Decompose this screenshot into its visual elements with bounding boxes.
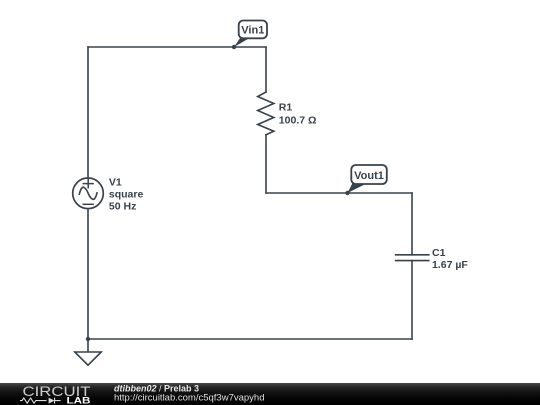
V1 minus sign xyxy=(83,203,93,205)
logo diode bar xyxy=(55,397,61,403)
svg-text:50 Hz: 50 Hz xyxy=(109,201,136,213)
wire left vertical upper (top node to V1) xyxy=(87,47,89,178)
ground stem xyxy=(87,339,89,352)
junction node at Vout1 xyxy=(345,191,349,195)
flag pointer Vin1 xyxy=(234,38,251,48)
junction node at ground xyxy=(86,337,90,341)
capacitor C1 top plate xyxy=(396,254,429,256)
flag box Vout1 xyxy=(351,165,387,184)
svg-text:square: square xyxy=(109,189,144,201)
svg-text:LAB: LAB xyxy=(67,395,91,405)
junction node at Vin1 xyxy=(232,45,236,49)
wire middle horizontal xyxy=(266,192,412,194)
flag pointer Vout1 xyxy=(348,183,368,193)
wire bottom horizontal xyxy=(88,338,412,340)
svg-text:100.7 Ω: 100.7 Ω xyxy=(279,114,317,126)
svg-text:R1: R1 xyxy=(279,102,293,114)
wire C1 bottom vertical xyxy=(411,261,413,339)
svg-text:Vout1: Vout1 xyxy=(354,170,384,182)
V1 sine wave xyxy=(79,187,97,199)
wire vertical to C1 top xyxy=(411,193,413,255)
V1 plus sign xyxy=(83,180,93,188)
logo resistor glyph xyxy=(20,398,47,403)
wire top horizontal xyxy=(88,46,266,48)
capacitor C1 bottom plate xyxy=(396,260,429,262)
wire right vertical to R1 top xyxy=(265,47,267,92)
wire R1 bottom to corner xyxy=(265,135,267,193)
svg-text:1.67 µF: 1.67 µF xyxy=(432,259,468,271)
svg-text:http://circuitlab.com/c5qf3w7v: http://circuitlab.com/c5qf3w7vapyhd xyxy=(114,392,265,403)
svg-text:C1: C1 xyxy=(432,247,446,259)
logo diode glyph xyxy=(49,397,55,403)
flag box Vin1 xyxy=(239,21,267,39)
voltage source V1 circle xyxy=(73,178,104,209)
wire left vertical lower (V1 bottom to ground node) xyxy=(87,209,89,340)
svg-text:Vin1: Vin1 xyxy=(241,25,264,37)
svg-text:V1: V1 xyxy=(109,176,122,188)
resistor R1 xyxy=(258,92,274,135)
ground triangle xyxy=(75,352,101,365)
footer bar xyxy=(0,383,540,405)
